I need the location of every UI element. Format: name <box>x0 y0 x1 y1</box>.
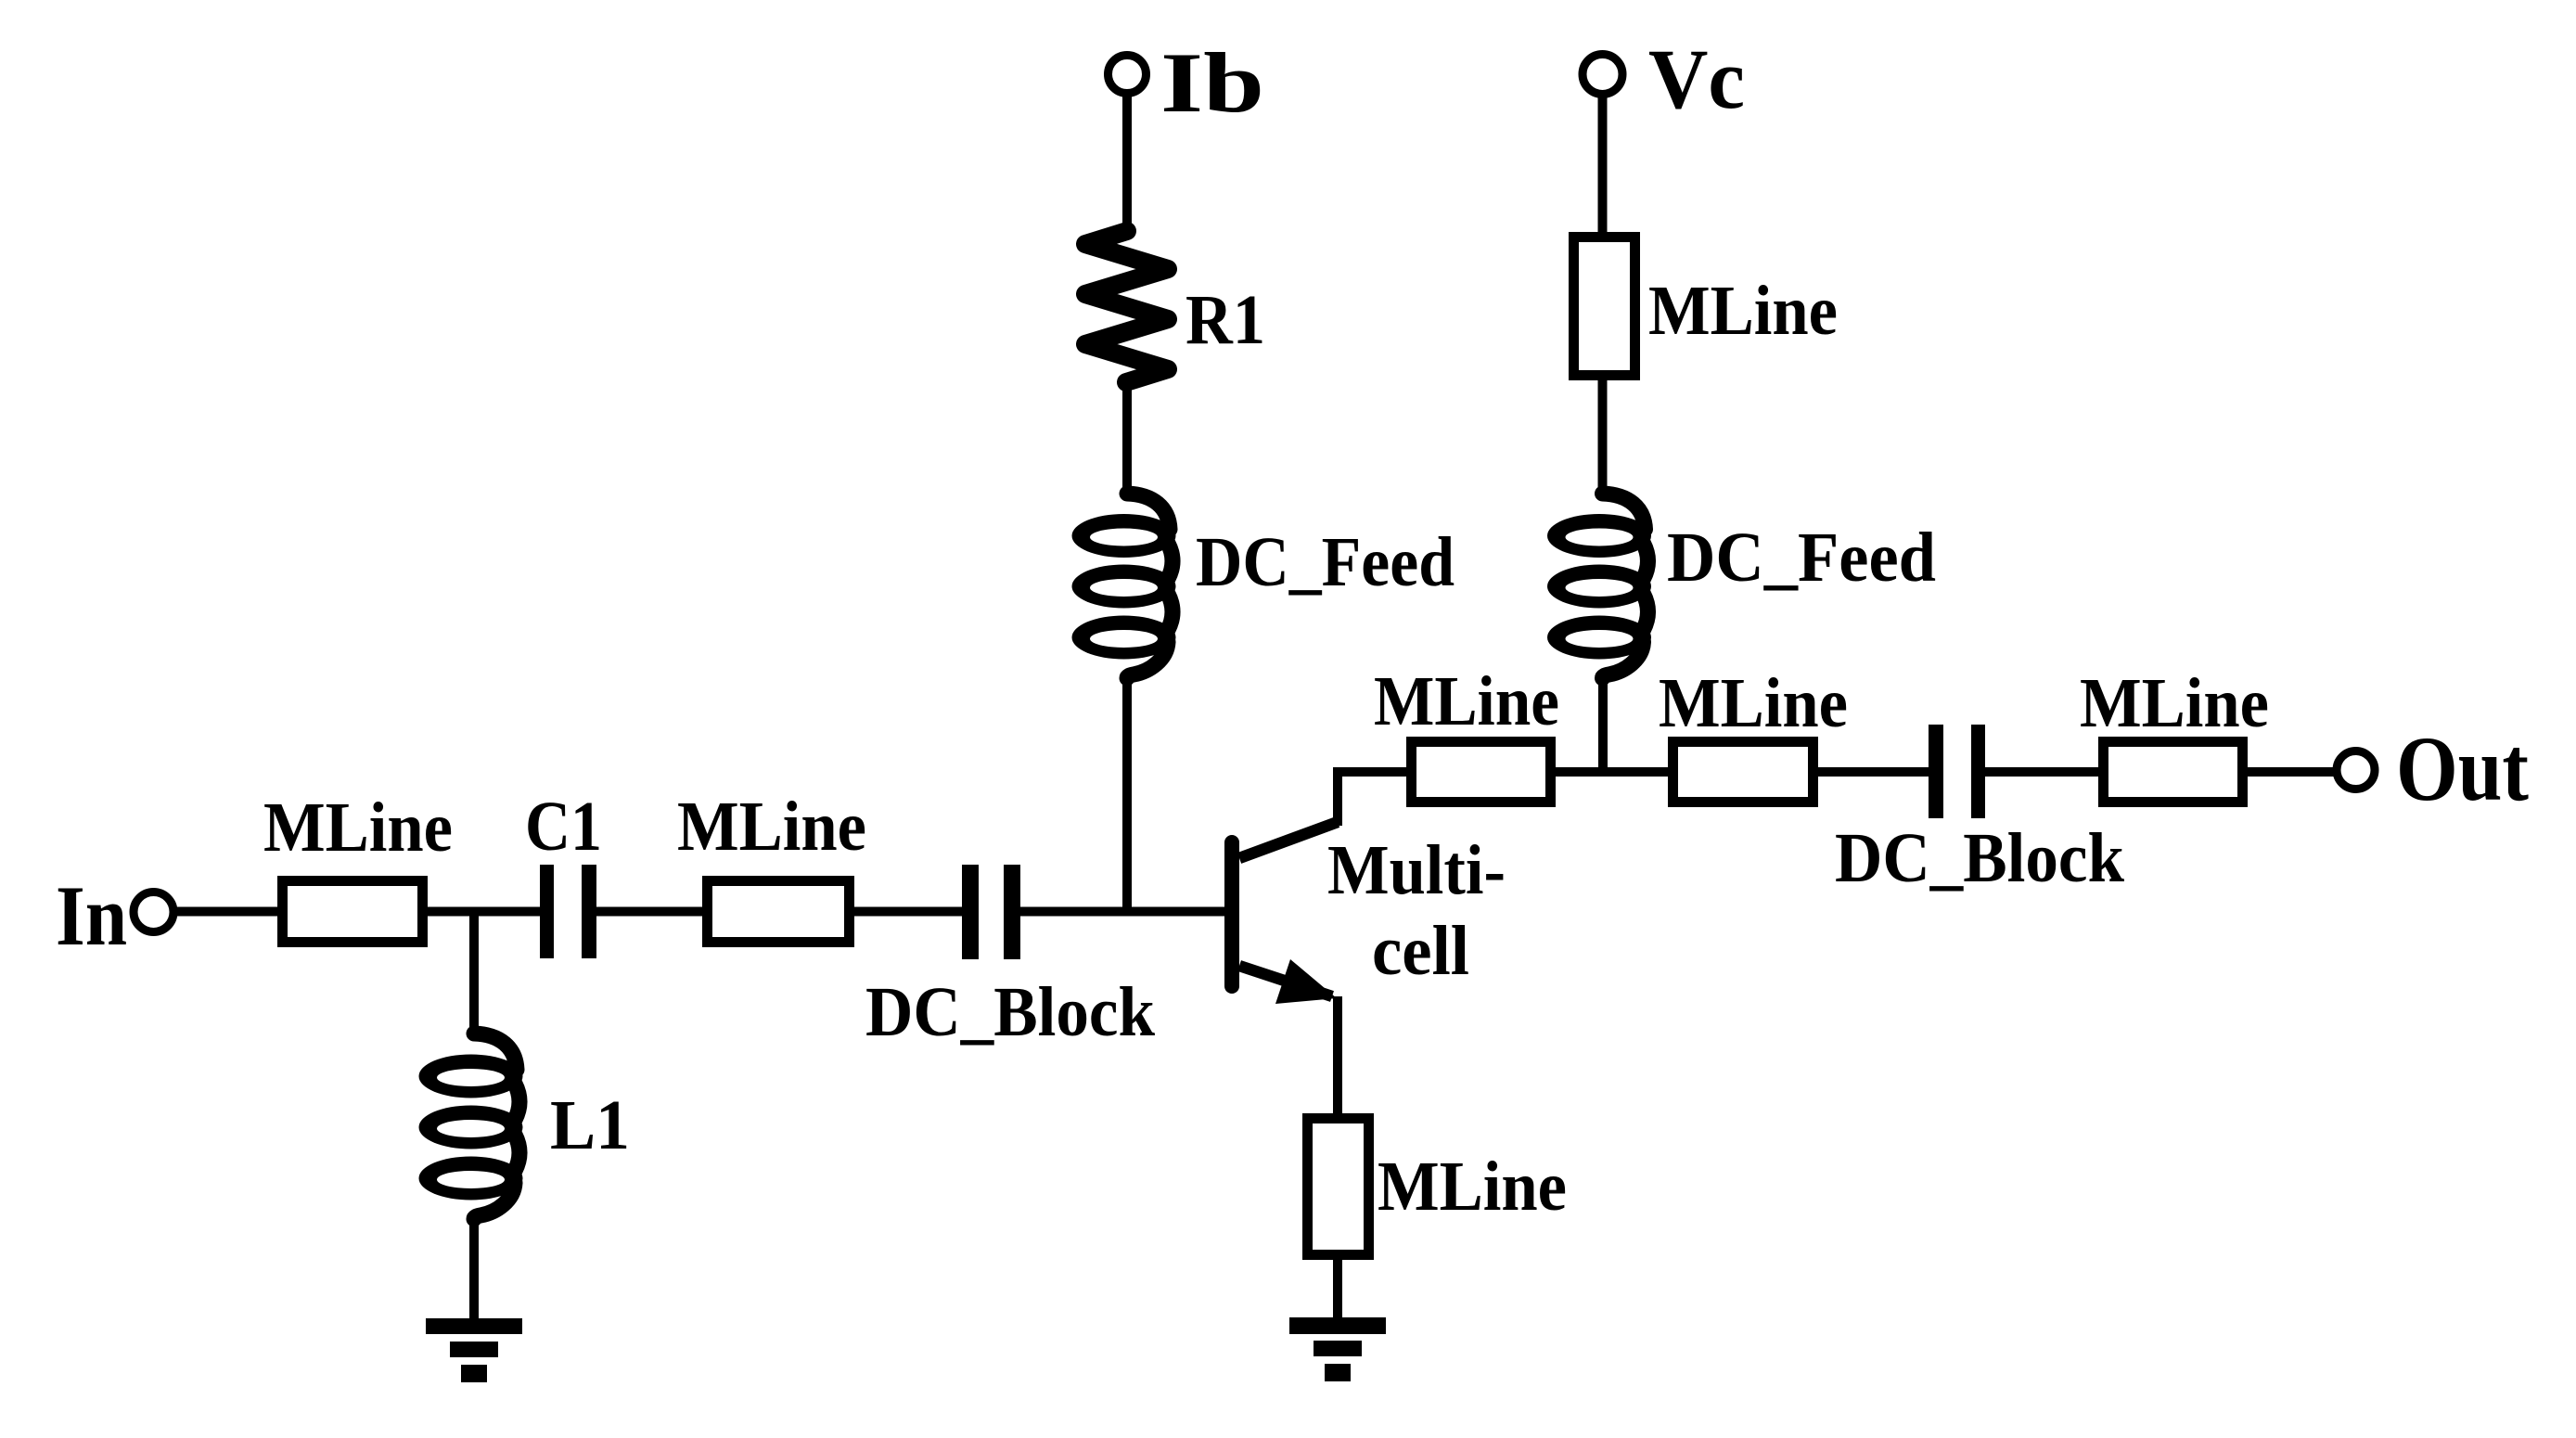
svg-text:MLine: MLine <box>263 789 453 867</box>
transistor emitter stroke <box>1239 966 1332 996</box>
svg-text:DC_Feed: DC_Feed <box>1196 523 1455 601</box>
node Out terminal <box>2337 751 2375 790</box>
wire DC_Block1 to base <box>1020 907 1226 917</box>
svg-text:MLine: MLine <box>677 788 866 866</box>
wire MLine5 to Out <box>2246 767 2338 777</box>
wire DC_Block2 to MLine5 <box>1985 767 2100 777</box>
svg-text:C1: C1 <box>525 788 602 866</box>
svg-text:L1: L1 <box>550 1086 630 1164</box>
transmission line MLine (collector) <box>1412 742 1551 802</box>
wire Ib to R1 <box>1122 93 1132 234</box>
resistor R1 <box>1085 231 1168 382</box>
node Vc terminal <box>1583 55 1622 95</box>
svg-text:DC_Block: DC_Block <box>1835 819 2125 897</box>
capacitor DC_Block (output) <box>1929 725 1985 818</box>
svg-text:MLine: MLine <box>2080 664 2269 742</box>
capacitor DC_Block (input) <box>962 865 1020 959</box>
node junction to L1 <box>469 912 479 1040</box>
inductor DC_Feed (Vc branch) <box>1547 494 1651 678</box>
wire L1 to ground <box>469 1212 479 1320</box>
svg-text:MLine: MLine <box>1659 664 1848 742</box>
wire MLine4 to DC_Block2 <box>1816 767 1930 777</box>
node Ib terminal <box>1109 56 1147 94</box>
wire MLine to DC_Feed2 <box>1598 375 1608 499</box>
ground (emitter) <box>1289 1317 1386 1381</box>
transmission line MLine (emitter, vertical) <box>1308 1119 1369 1255</box>
inductor L1 <box>419 1034 523 1219</box>
wire emitter MLine to ground <box>1333 1260 1342 1319</box>
wire DC_Feed1 to base wire <box>1122 672 1132 911</box>
transmission line MLine (output 2) <box>1673 742 1813 802</box>
svg-text:MLine: MLine <box>1378 1148 1567 1226</box>
svg-text:In: In <box>56 868 127 963</box>
svg-text:R1: R1 <box>1185 281 1265 359</box>
wire MLine3 to T junction to MLine4 <box>1554 767 1670 777</box>
inductor DC_Feed (Ib branch) <box>1072 494 1176 678</box>
svg-text:Multi-: Multi- <box>1327 831 1506 909</box>
transistor emitter arrowhead <box>1275 959 1337 1004</box>
wire C1 to MLine2 <box>596 907 704 917</box>
transmission line MLine (output 3) <box>2104 742 2243 802</box>
transmission line MLine (Vc branch, vertical) <box>1574 238 1635 376</box>
transmission line MLine (input 2) <box>708 881 850 943</box>
wire collector to MLine3 <box>1338 772 1408 826</box>
wire T junction up to DC_Feed2 <box>1598 672 1608 772</box>
transistor Multi-cell base bar <box>1224 842 1239 986</box>
wire Vc to MLine vertical <box>1598 93 1608 236</box>
transmission line MLine (input 1) <box>283 881 423 943</box>
node In terminal <box>134 892 173 932</box>
svg-text:DC_Block: DC_Block <box>865 973 1156 1051</box>
wire R1 to DC_Feed1 <box>1122 379 1132 499</box>
wire emitter down <box>1333 996 1342 1115</box>
svg-text:MLine: MLine <box>1374 662 1559 740</box>
capacitor C1 <box>540 865 596 958</box>
svg-text:MLine: MLine <box>1648 272 1838 350</box>
svg-text:Out: Out <box>2396 717 2529 820</box>
wire In to MLine1 <box>177 907 279 917</box>
svg-text:Vc: Vc <box>1648 32 1745 126</box>
svg-text:DC_Feed: DC_Feed <box>1667 519 1936 597</box>
wire MLine1 to C1 <box>426 907 542 917</box>
svg-text:Ib: Ib <box>1160 35 1264 130</box>
wire MLine2 to DC_Block1 <box>852 907 964 917</box>
svg-text:cell: cell <box>1372 912 1469 990</box>
ground (L1) <box>426 1318 522 1382</box>
transistor collector stroke <box>1239 822 1338 858</box>
